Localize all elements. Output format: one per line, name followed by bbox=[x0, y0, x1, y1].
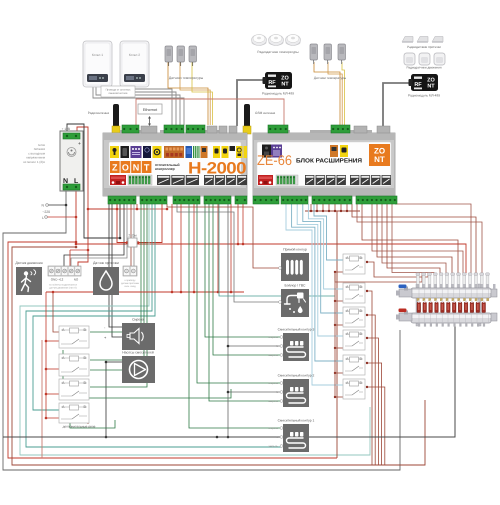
wire cyan relay feed 6 bbox=[314, 204, 343, 260]
resistor 2kOm bbox=[128, 238, 137, 247]
wire H2000 red drop x181 bbox=[180, 204, 182, 292]
radio leak sensor 2 bbox=[417, 37, 428, 43]
wire to motion sensor +12 bbox=[69, 250, 71, 266]
wire N bottom bus bbox=[3, 325, 455, 437]
wire N distribution bbox=[227, 204, 229, 437]
svg-text:Датчик движения: Датчик движения bbox=[15, 261, 42, 265]
radio module right (Радиомодуль МЛ-489) bbox=[409, 74, 439, 91]
wire red relay feeder 1 bbox=[46, 292, 60, 418]
svg-text:N: N bbox=[276, 391, 278, 394]
radio motion sensor 3 bbox=[434, 53, 445, 65]
wire boiler opentherm 4 bbox=[132, 85, 172, 125]
mixing relay 6 bbox=[343, 379, 365, 399]
wire mix3 open bbox=[205, 204, 283, 337]
heating manifold (коллектор) bbox=[396, 273, 497, 327]
wire H2000 red drop x194 bbox=[193, 204, 195, 292]
wire mix3 close bbox=[213, 204, 283, 355]
wire red relay feeder 2 bbox=[53, 292, 60, 332]
ZE-66 bottom sticker row bbox=[258, 175, 273, 185]
wire resistor left bbox=[117, 204, 127, 243]
temp sensor wired right 2 bbox=[324, 44, 332, 64]
wire temp sensor 5 bbox=[328, 62, 342, 127]
svg-text:БЛОК РАСШИРЕНИЯ: БЛОК РАСШИРЕНИЯ bbox=[296, 158, 362, 165]
wire relay coil bus bbox=[334, 272, 336, 397]
wire manifold actuator 11 bbox=[335, 272, 422, 282]
wire PSU +12V output bbox=[77, 127, 88, 266]
svg-text:NT: NT bbox=[281, 82, 289, 88]
svg-text:H-2000: H-2000 bbox=[188, 160, 246, 178]
svg-text:панелей котлов: панелей котлов bbox=[109, 92, 128, 95]
svg-text:Радиодатчики протечки: Радиодатчики протечки bbox=[407, 45, 441, 49]
wire relay2 output bbox=[367, 291, 372, 465]
radio leak sensor 1 bbox=[402, 37, 413, 43]
temp sensor wired 3 bbox=[189, 46, 197, 66]
svg-text:закрыть: закрыть bbox=[268, 445, 278, 448]
svg-text:N: N bbox=[276, 345, 278, 348]
wire boiler opentherm 3 bbox=[129, 85, 176, 125]
svg-text:Датчики температуры: Датчики температуры bbox=[169, 76, 204, 80]
H-2000 top terminals bbox=[122, 125, 139, 133]
svg-text:открыть: открыть bbox=[268, 336, 278, 339]
svg-text:Датчики температуры: Датчики температуры bbox=[314, 76, 347, 80]
wire manifold actuator 2 bbox=[352, 204, 476, 273]
svg-text:+: + bbox=[78, 141, 81, 147]
wire RF module cable right bbox=[383, 83, 413, 128]
svg-text:N: N bbox=[133, 163, 140, 173]
mixing circuit box (Смесительный контур 2) bbox=[283, 379, 309, 407]
H-2000 bottom sticker row bbox=[110, 175, 126, 185]
wire H2000 red drop x231 bbox=[230, 204, 232, 292]
temp sensor wired right 1 bbox=[310, 44, 318, 64]
wire green relay3 bbox=[90, 204, 147, 387]
mixing relay 4 bbox=[343, 330, 365, 350]
svg-text:открыть: открыть bbox=[268, 427, 278, 430]
wire relay out 3 bbox=[87, 410, 89, 424]
wire pump to N bus bbox=[105, 362, 107, 437]
wire manifold actuator 8 bbox=[387, 204, 440, 273]
wire temp sensor 2 bbox=[180, 62, 210, 125]
wire RF module cable left bbox=[237, 80, 267, 126]
wire manifold actuator 9 bbox=[392, 204, 434, 273]
wire manifold actuator 3 bbox=[357, 204, 482, 273]
wire temp sensor 6 bbox=[342, 62, 344, 127]
power supply unit (Блок питания) bbox=[60, 131, 83, 191]
pump box (Насосы смесителей) bbox=[122, 356, 155, 383]
wire red left riser bbox=[41, 340, 43, 458]
boiler DHW box (Бойлер / ГВС) bbox=[281, 289, 309, 317]
wire H2000 red drop x172 bbox=[171, 204, 173, 292]
svg-text:датчик движения (тип А): датчик движения (тип А) bbox=[49, 287, 76, 290]
wire H2000 to boiler circuit bbox=[177, 204, 281, 302]
svg-text:Ethernet: Ethernet bbox=[143, 108, 158, 112]
wire teal loop 3 bbox=[33, 204, 155, 410]
mixing relay 1 bbox=[343, 254, 365, 274]
H-2000 sticker row icons bbox=[110, 146, 247, 158]
wire cyan relay feed 5 bbox=[308, 204, 343, 289]
wire manifold actuator 10 bbox=[367, 262, 428, 277]
additional relay 4 bbox=[59, 403, 89, 423]
svg-text:O: O bbox=[122, 163, 129, 173]
wire pump 2 bbox=[90, 369, 122, 371]
svg-text:T: T bbox=[144, 163, 150, 173]
wire cyan relay feed 2 bbox=[292, 204, 343, 361]
wire relay4 output bbox=[367, 338, 378, 465]
wire mains L bus bbox=[76, 191, 466, 273]
boiler 2 (Котел 2) bbox=[120, 41, 149, 87]
wire cyan relay feed 1 bbox=[286, 204, 343, 385]
wire H2000 red drop x218 bbox=[217, 204, 219, 292]
motion sensor box (Датчик движения) bbox=[16, 267, 42, 295]
svg-text:RF: RF bbox=[414, 82, 422, 88]
svg-text:Смесительный контур 3: Смесительный контур 3 bbox=[278, 328, 315, 332]
wire red bus H2000 bbox=[117, 208, 167, 210]
wire resistor right bbox=[138, 204, 162, 243]
svg-text:+ 12В: + 12В bbox=[62, 127, 70, 131]
svg-text:Радиомодуль МЛ-489: Радиомодуль МЛ-489 bbox=[408, 94, 440, 98]
wire cyan relay feed 3 bbox=[297, 204, 343, 336]
svg-text:не менее 1 (2)А: не менее 1 (2)А bbox=[23, 160, 45, 164]
wire 12V link H2000-ZE66 bbox=[136, 99, 284, 127]
svg-text:закрыть: закрыть bbox=[268, 354, 278, 357]
GSM antenna bbox=[244, 104, 250, 128]
wire temp sensor 1 bbox=[168, 62, 208, 125]
svg-text:Радиодатчики движения: Радиодатчики движения bbox=[406, 66, 441, 70]
wire mix1 open bbox=[189, 204, 283, 428]
siren box (Сирена) bbox=[122, 323, 155, 350]
expansion unit ZE-66 body bbox=[15, 125, 497, 452]
wire mix2 N bbox=[228, 391, 283, 393]
radio motion sensor 1 bbox=[404, 53, 415, 65]
ZE-66 stickers bbox=[262, 145, 271, 158]
leak sensor terminal strip bbox=[123, 266, 137, 276]
wire to motion sensor 2 bbox=[71, 204, 127, 266]
wire to leak sensor 1 bbox=[130, 204, 132, 266]
leak sensor box (Датчик протечки) bbox=[93, 267, 119, 295]
wire ZE66 red bus bbox=[305, 210, 360, 212]
svg-text:N: N bbox=[276, 436, 278, 439]
wire to motion sensor 1 bbox=[64, 204, 124, 266]
controller H-2000 body bbox=[15, 125, 497, 452]
svg-text:2кОм: 2кОм bbox=[128, 234, 137, 238]
H-2000 bottom terminals bbox=[108, 196, 136, 204]
mixing relay 5 bbox=[343, 355, 365, 375]
wire relay out 2 bbox=[70, 405, 115, 428]
svg-text:-: - bbox=[104, 325, 106, 330]
wire H2000 L drop 1 bbox=[237, 204, 239, 244]
radio module left (Радиомодуль МЛ-489) bbox=[263, 72, 293, 89]
wire H2000 to direct circuit bbox=[167, 204, 281, 268]
svg-text:N: N bbox=[42, 204, 45, 208]
wire mains N bus bbox=[3, 191, 400, 470]
wire mix2 close bbox=[209, 204, 283, 401]
svg-text:NO: NO bbox=[74, 278, 79, 282]
junction dots bottom bus bbox=[216, 436, 219, 439]
svg-text:Котел 2: Котел 2 bbox=[129, 53, 140, 57]
svg-text:~220: ~220 bbox=[42, 210, 50, 214]
svg-text:+: + bbox=[104, 335, 107, 340]
wire red bus 292 bbox=[46, 291, 244, 293]
label box boiler wires bbox=[101, 86, 135, 97]
mixing circuit box (Смесительный контур 1) bbox=[283, 424, 309, 452]
radio temp sensor 1 bbox=[252, 35, 267, 46]
wire boiler opentherm 2 bbox=[96, 85, 180, 125]
wire mix1 N bbox=[228, 436, 283, 438]
direct circuit box (Прямой контур) bbox=[281, 253, 309, 281]
svg-text:Радиомодуль МЛ-489: Радиомодуль МЛ-489 bbox=[262, 92, 294, 96]
temp sensor wired 2 bbox=[177, 46, 185, 66]
svg-text:ZE-66: ZE-66 bbox=[257, 152, 292, 168]
svg-text:Датчик протечки: Датчик протечки bbox=[93, 261, 119, 265]
wire boiler opentherm 1 bbox=[93, 85, 184, 125]
wire manifold actuator 4 bbox=[362, 204, 458, 273]
ZE-66 top terminals bbox=[268, 125, 288, 133]
wire manifold actuator 6 bbox=[377, 204, 452, 273]
wire L branch loop bbox=[12, 247, 425, 465]
ethernet connector label bbox=[138, 104, 162, 114]
svg-text:сигн. вход: сигн. вход bbox=[124, 285, 136, 288]
radio temp sensor 2 bbox=[269, 35, 284, 46]
wire 12V to H2000 bbox=[88, 204, 117, 209]
wire pump 1 bbox=[106, 361, 122, 363]
svg-text:Радиодатчики температуры: Радиодатчики температуры bbox=[257, 50, 299, 54]
H-2000 ZONT logo bbox=[110, 161, 151, 173]
radio temp sensor 3 bbox=[286, 35, 301, 46]
svg-text:NT: NT bbox=[374, 155, 385, 164]
wire cyan relay feed 4 bbox=[303, 204, 343, 313]
svg-text:Радиоантенна: Радиоантенна bbox=[88, 111, 109, 115]
svg-text:Насосы смесителей: Насосы смесителей bbox=[122, 351, 154, 355]
wire siren + bbox=[112, 204, 122, 337]
svg-text:Смесительный контур 2: Смесительный контур 2 bbox=[278, 374, 315, 378]
boiler 1 (Котел 1) bbox=[83, 41, 112, 87]
wire teal loop 1 bbox=[20, 204, 370, 455]
wire relay5 output bbox=[367, 363, 382, 465]
motion sensor terminal strip bbox=[48, 266, 81, 276]
additional relay 3 bbox=[59, 379, 89, 400]
wire L stub bbox=[47, 216, 76, 218]
svg-text:Смесительный контур 1: Смесительный контур 1 bbox=[278, 419, 315, 423]
svg-text:Бойлер / ГВС: Бойлер / ГВС bbox=[284, 284, 306, 288]
wire N stub bbox=[48, 204, 66, 206]
mixing relay 2 bbox=[343, 283, 365, 303]
wire relay3 output bbox=[367, 315, 375, 465]
wire manifold actuator 1 bbox=[395, 204, 471, 273]
wire siren - bbox=[109, 204, 122, 327]
wire L left loop bbox=[8, 242, 337, 458]
radio antenna H-2000 bbox=[113, 104, 119, 128]
ZE-66 bottom terminals bbox=[253, 196, 279, 204]
wire manifold actuator 7 bbox=[382, 204, 446, 273]
svg-text:GSM антенна: GSM антенна bbox=[255, 111, 275, 115]
additional relay 1 bbox=[59, 326, 89, 348]
radio leak sensor 3 bbox=[432, 37, 443, 43]
svg-text:L: L bbox=[42, 216, 44, 220]
svg-text:дополнительные реле: дополнительные реле bbox=[63, 425, 96, 429]
wire mix3 N bbox=[228, 345, 283, 347]
wire green relay2 bbox=[90, 204, 144, 360]
wire manifold actuator 5 bbox=[372, 204, 463, 273]
mixing relay 3 bbox=[343, 307, 365, 327]
temp sensor wired right 3 bbox=[338, 44, 346, 64]
svg-text:NT: NT bbox=[427, 84, 435, 90]
wire relay out 1 bbox=[63, 350, 231, 398]
svg-text:RF: RF bbox=[268, 80, 276, 86]
wire ZE66 red drop bbox=[336, 211, 338, 458]
svg-text:Z: Z bbox=[112, 163, 118, 173]
wire green relay1 bbox=[90, 204, 141, 332]
svg-text:контроллер: контроллер bbox=[155, 167, 175, 171]
wire PSU -12V output bbox=[67, 124, 120, 238]
wire to leak sensor 2 bbox=[133, 204, 135, 266]
wire teal loop 2 bbox=[26, 204, 283, 447]
svg-text:закрыть: закрыть bbox=[268, 400, 278, 403]
svg-text:Сирена: Сирена bbox=[132, 318, 144, 322]
ZE-66 ZONT logo square bbox=[369, 144, 390, 166]
mixing circuit box (Смесительный контур 3) bbox=[283, 333, 309, 361]
temp sensor wired 1 bbox=[165, 46, 173, 66]
wire temp sensor 3 bbox=[192, 62, 212, 125]
wire teal aux bbox=[219, 204, 335, 296]
svg-text:Котел 1: Котел 1 bbox=[92, 53, 103, 57]
svg-text:Прямой контур: Прямой контур bbox=[283, 248, 307, 252]
wire H2000 L drop 2 bbox=[242, 204, 244, 244]
radio motion sensor 2 bbox=[419, 53, 430, 65]
wire relay6 output bbox=[367, 387, 385, 465]
wire mix2 open bbox=[197, 204, 283, 383]
additional relay 2 bbox=[59, 354, 89, 376]
wire temp sensor 4 bbox=[314, 62, 340, 127]
svg-text:открыть: открыть bbox=[268, 382, 278, 385]
svg-text:GND +12: GND +12 bbox=[51, 278, 64, 282]
